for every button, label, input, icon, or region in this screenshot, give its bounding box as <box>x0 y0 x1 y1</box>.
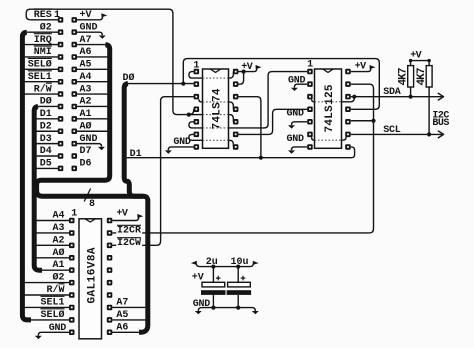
svg-text:8: 8 <box>89 199 95 210</box>
svg-text:AØ: AØ <box>53 247 65 259</box>
wire SEL1 to control bus <box>25 81 58 83</box>
wire I2CR from GAL up right side to U2 enables <box>112 84 373 233</box>
wire D0 line to U1 pin2 <box>128 83 194 85</box>
svg-text:R/W: R/W <box>47 284 65 296</box>
wire U3 A5 to bus <box>112 319 145 321</box>
wire A6 to address bus <box>77 56 108 58</box>
svg-text:Ø2: Ø2 <box>53 272 65 284</box>
arrow SDA to I2C bus <box>438 93 444 100</box>
node cap2 bottom <box>236 306 240 310</box>
wire R1 to SDA <box>410 87 412 97</box>
svg-text:SEL1: SEL1 <box>41 297 65 308</box>
wire GAL A0 from data bus <box>36 257 69 259</box>
wire U2 pin7 to ground <box>292 147 308 150</box>
wire IRQ to control bus <box>25 44 58 46</box>
U1 pin pads <box>194 69 200 75</box>
+V arrow U2 <box>370 65 376 69</box>
wire A4 to address bus <box>77 81 108 83</box>
bus control (phi2 corner down left side to GAL SEL0) <box>27 31 58 33</box>
wire hidden under U1 (pin1 to pin14) <box>203 77 229 79</box>
wire U1 pin9 Q2 to U2 pin4 enable <box>238 109 307 134</box>
resistor R2 4K7 <box>426 66 432 87</box>
svg-text:I2CW: I2CW <box>117 238 141 249</box>
wire D2 to data bus <box>36 130 58 132</box>
wire D1 to data bus <box>36 118 58 120</box>
IC U2 74LS125 body <box>315 69 342 148</box>
wire D4 to data bus <box>36 155 58 157</box>
svg-text:+V: +V <box>116 209 128 220</box>
ground arrow U2 pin5 <box>288 125 295 128</box>
svg-text:1: 1 <box>71 208 77 219</box>
svg-text:74LS74: 74LS74 <box>211 88 223 129</box>
bus width marker /8 <box>84 189 90 202</box>
svg-text:GND: GND <box>49 323 67 334</box>
wire U1 pin3 curl under chip <box>199 99 203 102</box>
wire exit to SDA node <box>342 97 355 102</box>
wire Q1 to U2 pin1 enable <box>229 72 308 128</box>
node D1 junction <box>259 156 263 160</box>
wire GND stub J1 top <box>77 32 103 35</box>
wire I2CW from GAL to U1 pin3 clock <box>112 97 193 246</box>
wire SCL line <box>351 133 442 135</box>
wire D5 to data bus <box>36 167 58 169</box>
wire GAL A4 from data bus <box>36 220 69 222</box>
wire U2 pin2 to ground <box>294 84 307 87</box>
IC U1 74LS74 body <box>203 69 229 148</box>
svg-text:I2CR: I2CR <box>117 226 141 237</box>
svg-text:4K7: 4K7 <box>397 68 409 86</box>
wire junction loop to U1 pin13 <box>238 72 243 85</box>
node D0 junction <box>181 82 185 86</box>
wire R2 to SCL <box>428 87 430 134</box>
wire hidden under U1 (clock tie) <box>203 101 229 103</box>
node tee left <box>409 59 412 62</box>
wire junction to U1 pin4 <box>189 109 194 114</box>
ground arrow caps right <box>252 311 259 314</box>
ground arrow U2 pin7 <box>288 150 295 153</box>
ground arrow J1 top <box>99 36 106 39</box>
wire exit to U1 pin11 <box>229 102 234 109</box>
wire R/W to control bus <box>25 93 58 95</box>
bus data right (D0 corner down to GAL wrap) <box>124 84 134 197</box>
node I2CR junction at U2 pin10 <box>371 119 375 123</box>
node SDA junction at U2 pin12 <box>352 95 356 99</box>
node R2/SCL junction <box>427 132 431 136</box>
wire hidden under U2 (SCL drive) <box>315 139 342 141</box>
svg-text:A6: A6 <box>116 323 128 334</box>
wire A0 to address bus <box>77 130 108 132</box>
+V arrow caps right <box>253 261 259 265</box>
wire D3 to data bus <box>36 143 58 145</box>
wire A1 to address bus <box>77 118 108 120</box>
svg-text:+V: +V <box>355 61 367 72</box>
arrow SCL to I2C bus <box>438 131 444 138</box>
net label I2CW <box>116 237 142 247</box>
node R1/SDA junction <box>409 95 413 99</box>
wire hidden under U1 (Q1 out) <box>203 127 229 129</box>
wire GAL SEL1 from control bus <box>25 306 69 308</box>
node cap1 top <box>211 265 215 269</box>
wire exit to U1 pin14 <box>229 72 234 79</box>
wire hidden under U1 (preset tie) <box>189 114 203 116</box>
svg-text:BUS: BUS <box>432 118 449 129</box>
wire U2 pin5 to ground <box>292 122 308 125</box>
wire SDA line <box>351 96 442 98</box>
wire U3 +V stub <box>112 217 138 221</box>
wire U2 pin10 stub <box>351 120 374 122</box>
wire RES net (around top to U1 preset) <box>26 9 187 114</box>
bus wrap down right of GAL to A6 <box>133 196 148 332</box>
wire D1 line <box>127 157 352 159</box>
wire hidden under U2 (SDA drive) <box>315 101 342 103</box>
ground arrow U1 <box>165 150 172 153</box>
wire U2 pin8 elbow to D1 <box>351 147 355 158</box>
wire U2 pin14 to +V <box>351 68 371 72</box>
ground arrow J1 lower <box>98 147 105 150</box>
wire U3 A7 to bus <box>112 306 145 308</box>
wire GAL A2 from data bus <box>36 244 69 246</box>
wire exit to U1 pin10 <box>229 115 234 122</box>
wire U1 pin6 loop under chip <box>189 134 203 140</box>
+V arrow U3 <box>137 214 143 218</box>
wire NMI to control bus <box>25 56 58 58</box>
svg-text:GND: GND <box>193 299 211 310</box>
wire D0 rail (up and across to U2 pin11) <box>183 59 379 110</box>
wire GND stub J1 lower <box>77 144 102 147</box>
bus data (D0 corner down left side to GAL A1 row) <box>38 105 58 107</box>
svg-text:GND: GND <box>287 108 305 119</box>
svg-text:A1: A1 <box>53 260 65 271</box>
wire A2 to address bus <box>77 105 108 107</box>
wire U1 pin5 loop under chip <box>189 122 203 128</box>
wire U3 GND to ground <box>38 332 69 335</box>
wire GAL A3 from data bus <box>36 232 69 234</box>
wire caps +V rail <box>196 263 253 266</box>
U3 pin pads <box>69 218 75 224</box>
svg-text:GND: GND <box>287 134 305 145</box>
capacitor C1 2u <box>212 267 214 308</box>
wire U2 pin6 curl under chip <box>312 137 315 140</box>
ground arrow caps left <box>195 311 202 314</box>
+V arrow U1 <box>256 65 262 69</box>
wire +V tee for pullups <box>411 61 430 66</box>
svg-text:D7: D7 <box>80 146 92 157</box>
wire +V stub J1 <box>77 16 103 20</box>
+V arrow J1 <box>101 13 107 17</box>
svg-text:74LS125: 74LS125 <box>324 84 336 132</box>
ground arrow U2 pin2 <box>291 88 298 91</box>
node RES/preset junction <box>187 113 191 117</box>
capacitor C2 10u <box>237 267 239 308</box>
wire U1 pin1 loop under chip <box>189 72 203 79</box>
bus address A7 wrap (right of J1 down and around to GAL) <box>77 44 106 46</box>
wire U1 pin14 to +V <box>238 68 256 72</box>
resistor R1 4K7 <box>408 66 414 87</box>
wire A5 to address bus <box>77 68 108 70</box>
+V arrow caps left <box>191 261 197 265</box>
node U1 +V junction <box>242 70 246 74</box>
IC U3 GAL16V8A body <box>79 219 102 339</box>
U2 pin pads <box>307 69 313 75</box>
ground arrow U3 <box>35 336 42 339</box>
svg-text:D6: D6 <box>80 159 92 170</box>
node tee right <box>427 59 430 62</box>
svg-text:GAL16V8A: GAL16V8A <box>86 247 98 303</box>
wire A3 to address bus <box>77 93 108 95</box>
wire U1 pin12 to D1 junction <box>238 97 261 158</box>
wire U1 pin7 to ground <box>168 147 193 150</box>
wire GAL R/W from control bus <box>25 294 69 296</box>
connector J1 pin pads <box>58 17 64 23</box>
node cap1 bottom <box>211 306 215 310</box>
svg-text:A3: A3 <box>53 223 65 234</box>
wire hidden under U1 (pin6 tie) <box>203 139 229 141</box>
wire exit to U1 pin8 <box>229 140 234 147</box>
wire exit to U2 pin9 <box>342 137 347 140</box>
wire GAL PHI2 from control bus <box>25 282 69 284</box>
net label I2CR <box>116 224 142 234</box>
wire caps ground rail <box>198 308 255 311</box>
svg-text:A4: A4 <box>53 211 65 222</box>
svg-text:DØ: DØ <box>123 72 135 84</box>
svg-text:4K7: 4K7 <box>416 68 428 86</box>
node cap2 top <box>236 265 240 269</box>
wire U2 pin3 curl under chip <box>312 99 315 101</box>
svg-text:1: 1 <box>307 59 313 70</box>
svg-text:A2: A2 <box>53 235 65 246</box>
svg-text:SELØ: SELØ <box>41 309 65 321</box>
wire SEL0 to control bus <box>25 68 58 70</box>
